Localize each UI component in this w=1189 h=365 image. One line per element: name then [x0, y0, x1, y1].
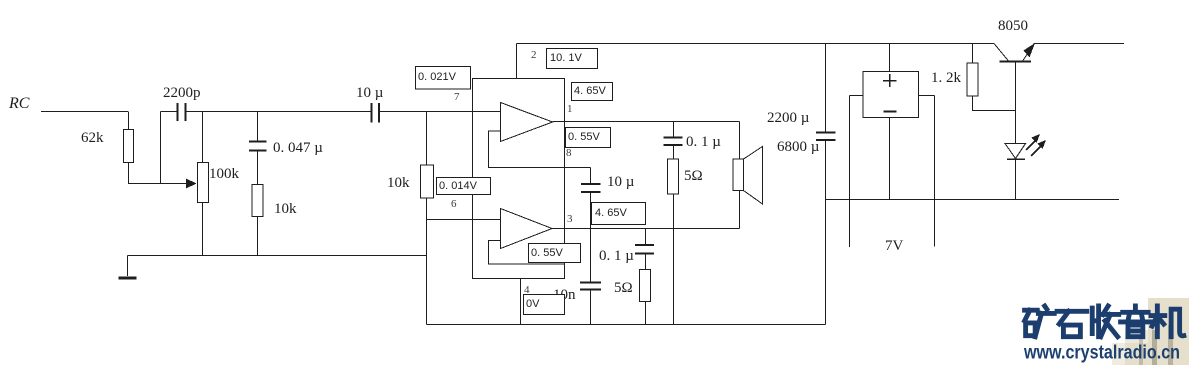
capacitor 0.1u upper zobel [673, 122, 675, 138]
wire 2200p branch vertical [160, 112, 162, 184]
label box 0.014V pin6 [437, 178, 491, 195]
wire top supply rail [517, 43, 995, 45]
wire U1b feedback [489, 241, 565, 265]
battery 7V [889, 44, 891, 72]
wire 1.2k bottom to base node [973, 96, 1016, 111]
wire ground line left [128, 255, 427, 257]
wire 62k bottom to wiper [129, 163, 187, 184]
wire potentiometer bottom lead [202, 203, 204, 256]
wire right ground line [826, 199, 1120, 201]
ground [127, 256, 129, 277]
resistor 10k (input divider) [252, 185, 263, 217]
label box 10.1V pin2 [547, 49, 598, 69]
wire 10u cap leads [590, 168, 592, 283]
wire 62k top lead [128, 112, 130, 130]
label box 4.65V pin1 [572, 83, 613, 101]
wire 10n bottom lead [590, 290, 592, 325]
wire 10k bottom lead [257, 217, 259, 256]
capacitor 10u input coupling [372, 103, 380, 123]
wire pin4 ground lead [520, 279, 522, 325]
label box 0.55V pin8 [566, 128, 611, 148]
resistor 1.2k [972, 44, 974, 64]
wire battery left probe [850, 96, 864, 248]
wire RC input [41, 111, 128, 113]
capacitor 10u feedback upper [581, 184, 601, 192]
resistor 10k (pin7 bias) [421, 165, 434, 198]
resistor 62k [124, 130, 134, 163]
wire 2200p left lead [161, 111, 177, 113]
resistor 5ohm lower [645, 254, 647, 270]
label box 0V pin4 [524, 295, 565, 315]
wire U1a output [553, 121, 740, 123]
resistor 5ohm upper [673, 146, 675, 160]
wire pin7 resistor bottom down to bottom rail [426, 198, 428, 325]
label box 0.021V pin7 [416, 67, 471, 90]
wire 0.047u branch top lead [257, 112, 259, 142]
capacitor 2200u/6800u supply [825, 44, 827, 133]
wiper arrow of potentiometer [186, 179, 197, 189]
label box 0.55V lower [529, 244, 581, 263]
wire speaker top lead [739, 122, 741, 160]
wire pin2 supply lead [516, 44, 518, 79]
wire bottom rail [427, 324, 826, 326]
wire pin7 node vertical [426, 112, 428, 166]
wire transistor base lead down [1015, 63, 1017, 144]
wire supply cap bottom to rails [825, 141, 827, 325]
wire signal into pin7 [380, 111, 501, 113]
capacitor 0.047u [249, 142, 267, 151]
wire 0.047u to 10k [257, 152, 259, 185]
op-amp U1a [501, 103, 553, 142]
op-amp U1b [501, 209, 553, 249]
wire U1b output [552, 228, 740, 230]
LED D1 [1005, 144, 1026, 159]
speaker [733, 159, 744, 191]
op-amp IC box TDA2822 [473, 79, 565, 279]
wire pin6 line [427, 219, 501, 221]
wire speaker bottom lead [739, 191, 741, 229]
wire potentiometer top lead [202, 112, 204, 163]
capacitor 0.1u lower zobel [645, 229, 647, 246]
watermark chinese characters [1025, 306, 1184, 337]
wire signal line after 2200p [187, 111, 372, 113]
potentiometer 100k [198, 163, 209, 203]
wire U1a feedback [489, 131, 591, 168]
svg-text:www.crystalradio.cn: www.crystalradio.cn [1023, 343, 1180, 364]
wire lower zobel to bottom rail [645, 302, 647, 325]
wire upper zobel to bottom rail [673, 194, 675, 325]
watermark background ghost [1148, 298, 1189, 365]
capacitor 10n [580, 283, 601, 290]
wire battery right probe [919, 96, 935, 247]
label box 4.65V pin3 [592, 203, 646, 225]
LED emission arrows [1026, 139, 1037, 150]
capacitor 2200p [178, 103, 186, 121]
